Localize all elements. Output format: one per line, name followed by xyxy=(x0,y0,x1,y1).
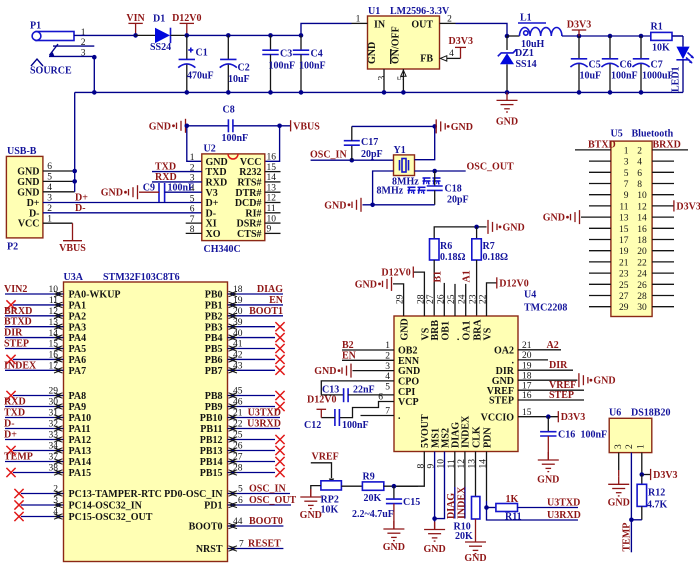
power port VBUS xyxy=(291,120,321,132)
svg-text:20K: 20K xyxy=(455,531,473,542)
U3A pin 33 D+ xyxy=(4,430,64,443)
svg-text:GND: GND xyxy=(608,497,630,508)
svg-text:R12: R12 xyxy=(648,488,665,499)
svg-text:D1: D1 xyxy=(153,14,165,25)
svg-text:GND: GND xyxy=(314,366,336,377)
svg-text:VIN2: VIN2 xyxy=(4,284,27,295)
svg-text:D12V0: D12V0 xyxy=(172,13,201,24)
U2 right pin stubs xyxy=(265,172,281,234)
svg-text:D12V0: D12V0 xyxy=(307,395,336,406)
U3A pin 7 RESET xyxy=(228,538,284,551)
ground symbol R6R7 xyxy=(488,220,525,234)
U3A pin 43 NC xyxy=(228,362,285,375)
connector P2 USB-B xyxy=(6,146,52,253)
wire GND to C8 to VBUS xyxy=(187,125,228,127)
ground symbol MS pins xyxy=(423,522,445,556)
capacitor C16 100nF xyxy=(540,417,607,460)
U4 pin 25 stub xyxy=(454,284,456,316)
svg-text:VBUS: VBUS xyxy=(59,243,86,254)
svg-text:BOOT0: BOOT0 xyxy=(249,516,283,527)
svg-text:R7: R7 xyxy=(483,241,495,252)
power port D3V3 xyxy=(567,20,591,37)
U6 pin 2 net TEMP xyxy=(622,453,634,553)
capacitor C1 470uF xyxy=(178,35,213,92)
svg-text:24: 24 xyxy=(637,270,647,280)
U3A pin 40 NC xyxy=(228,329,285,342)
U3A pin 19 EN xyxy=(228,295,284,308)
svg-text:C1: C1 xyxy=(196,48,208,59)
ground symbol C16 xyxy=(537,452,559,486)
svg-text:10uF: 10uF xyxy=(580,71,602,82)
svg-text:C3: C3 xyxy=(280,49,292,60)
wire D+ net xyxy=(43,193,202,204)
svg-text:EN: EN xyxy=(269,295,284,306)
wire RP2 left to gnd xyxy=(311,486,321,497)
svg-text:20: 20 xyxy=(637,247,647,257)
capacitor C6 100nF xyxy=(601,36,637,92)
svg-text:1: 1 xyxy=(385,341,390,351)
svg-text:20pF: 20pF xyxy=(447,194,469,205)
svg-text:100nF: 100nF xyxy=(299,61,326,72)
net U3TXD wire xyxy=(518,498,581,509)
svg-text:41: 41 xyxy=(233,340,243,350)
svg-text:33: 33 xyxy=(49,431,59,441)
U2 pin7 pin8 stubs xyxy=(186,223,202,233)
U4 pin 11 net DIAG xyxy=(446,452,457,520)
svg-text:BOOT0: BOOT0 xyxy=(189,522,223,533)
svg-text:1: 1 xyxy=(81,28,86,38)
svg-text:PA3: PA3 xyxy=(69,322,87,333)
wire P1 pin1 to VIN xyxy=(74,34,136,36)
U4 pin 18 GND xyxy=(518,371,616,387)
svg-text:U3A: U3A xyxy=(64,272,84,283)
svg-text:5: 5 xyxy=(190,194,195,204)
svg-text:PB6: PB6 xyxy=(205,355,223,366)
resistor R10 20K xyxy=(454,452,480,543)
ground rail xyxy=(75,91,683,93)
svg-text:PC15-OSC32_OUT: PC15-OSC32_OUT xyxy=(69,512,153,523)
svg-text:VS: VS xyxy=(483,327,494,340)
svg-text:D12V0: D12V0 xyxy=(381,268,410,279)
svg-text:20: 20 xyxy=(522,351,532,361)
U3A pin 5 OSC_IN xyxy=(228,483,291,496)
U3A pin 37 TEMP xyxy=(4,452,64,465)
svg-text:1K: 1K xyxy=(506,494,519,505)
IC U6 DS18B20 xyxy=(609,408,670,453)
U3A pin 11 NC xyxy=(6,296,63,309)
power port D3V3 U5 xyxy=(652,200,700,212)
svg-text:DIR: DIR xyxy=(549,360,568,371)
U3A pin 30 RXD xyxy=(4,397,64,410)
U4 pin 16 net STEP xyxy=(518,390,584,401)
wire crystal top gnd rail xyxy=(352,125,435,127)
svg-text:11: 11 xyxy=(49,296,58,306)
wire U1 OUT to node xyxy=(456,23,508,36)
svg-text:LED1: LED1 xyxy=(671,66,682,92)
svg-text:46: 46 xyxy=(233,398,243,408)
ground symbol main rail xyxy=(496,92,518,127)
svg-text:0.18Ω: 0.18Ω xyxy=(440,252,466,263)
svg-text:IN: IN xyxy=(374,19,386,30)
wire P1 pin3 xyxy=(49,56,94,92)
svg-text:13: 13 xyxy=(619,214,629,224)
svg-text:C4: C4 xyxy=(311,49,323,60)
regulator U1 LM2596-3.3V xyxy=(367,6,450,69)
svg-text:10uF: 10uF xyxy=(228,74,250,85)
svg-text:EN: EN xyxy=(342,350,357,361)
ground symbol crystal top xyxy=(436,119,473,133)
svg-text:18: 18 xyxy=(637,236,647,246)
svg-text:PA8: PA8 xyxy=(69,391,87,402)
svg-text:D-: D- xyxy=(4,419,15,430)
svg-text:11: 11 xyxy=(619,202,628,212)
svg-text:PA4: PA4 xyxy=(69,333,87,344)
wire Y1 left bottom to gnd xyxy=(373,171,394,205)
net OSC_OUT xyxy=(415,161,515,172)
capacitor C13 22nF xyxy=(321,382,394,402)
svg-text:28: 28 xyxy=(233,464,243,474)
svg-text:VCCIO: VCCIO xyxy=(481,412,515,423)
svg-text:CTS#: CTS# xyxy=(237,229,261,240)
svg-text:21: 21 xyxy=(522,341,532,351)
svg-text:30: 30 xyxy=(637,303,647,313)
svg-text:PA2: PA2 xyxy=(69,311,87,322)
U4 pin 10 MS2 wire xyxy=(432,452,444,530)
svg-text:RESET: RESET xyxy=(248,538,281,549)
U3A pin 29 NC xyxy=(6,387,63,400)
svg-text:16: 16 xyxy=(267,153,277,163)
U4 pin 14 PDN wire xyxy=(484,452,489,510)
svg-text:U3TXD: U3TXD xyxy=(248,408,281,419)
svg-text:6: 6 xyxy=(637,169,642,179)
svg-text:17: 17 xyxy=(49,362,59,372)
svg-text:10: 10 xyxy=(637,191,647,201)
net RXD xyxy=(152,172,202,183)
svg-text:PB11: PB11 xyxy=(200,424,222,435)
svg-text:6: 6 xyxy=(378,393,383,403)
svg-text:FB: FB xyxy=(420,53,433,64)
svg-text:32: 32 xyxy=(49,420,59,430)
svg-text:19: 19 xyxy=(522,361,532,371)
svg-text:37: 37 xyxy=(49,453,59,463)
svg-text:U5: U5 xyxy=(611,129,623,140)
svg-text:8MHz: 8MHz xyxy=(377,185,404,196)
svg-text:B1: B1 xyxy=(433,271,444,283)
svg-text:L1: L1 xyxy=(520,13,532,24)
svg-text:PA9: PA9 xyxy=(69,402,87,413)
svg-text:U4: U4 xyxy=(524,290,536,301)
U4 pin 26 net B1 xyxy=(433,271,445,316)
svg-text:STEP: STEP xyxy=(4,339,29,350)
svg-text:STEP: STEP xyxy=(549,390,574,401)
U3A pin 39 NC xyxy=(228,318,285,331)
svg-text:27: 27 xyxy=(233,453,243,463)
U3A pin 21 U3TXD xyxy=(228,408,282,421)
connector P1 barrel jack xyxy=(30,21,86,77)
svg-text:GND: GND xyxy=(503,222,525,233)
U4 pin 3 GND xyxy=(314,362,394,378)
svg-text:D-: D- xyxy=(29,208,40,219)
svg-text:SS14: SS14 xyxy=(516,59,537,70)
svg-text:C17: C17 xyxy=(361,137,378,148)
svg-text:BOOT1: BOOT1 xyxy=(249,306,283,317)
svg-text:5: 5 xyxy=(385,382,390,392)
svg-text:D12V0: D12V0 xyxy=(499,278,528,289)
U4 pin 24 net A1 xyxy=(462,270,473,316)
U3A pin 3 NC xyxy=(14,496,63,509)
U1 pin 4 FB to D3V3 xyxy=(440,36,473,61)
svg-text:GND: GND xyxy=(355,279,377,290)
ground symbol crystal bottom xyxy=(324,198,361,212)
resistor R7 0.18ohm xyxy=(472,227,508,316)
power port VBUS at P2 xyxy=(43,223,86,254)
svg-text:TEMP: TEMP xyxy=(622,523,633,552)
svg-text:23: 23 xyxy=(469,294,479,304)
wire VBUS node to U2 pin16 xyxy=(265,126,280,162)
svg-text:29: 29 xyxy=(49,387,59,397)
svg-text:D3V3: D3V3 xyxy=(567,20,591,31)
svg-text:Bluetooth: Bluetooth xyxy=(632,129,674,140)
ground symbol C15 xyxy=(383,521,405,553)
svg-text:GND: GND xyxy=(17,167,39,178)
P1 switch contact xyxy=(31,44,58,66)
U3A pin 27 NC xyxy=(228,453,285,466)
U4 pin 8 5VOUT wire xyxy=(394,452,424,487)
svg-text:GND: GND xyxy=(367,42,378,64)
svg-text:GND: GND xyxy=(451,122,473,133)
capacitor C12 100nF xyxy=(304,409,369,431)
U4 pin 2 net EN xyxy=(342,350,394,361)
svg-text:R6: R6 xyxy=(440,241,452,252)
svg-text:9: 9 xyxy=(624,191,629,201)
ground symbol RP2 xyxy=(300,489,322,521)
svg-text:C7: C7 xyxy=(651,60,663,71)
U6 pin 1 D3V3 xyxy=(640,453,678,481)
svg-text:3: 3 xyxy=(385,362,390,372)
svg-text:DIR: DIR xyxy=(4,328,23,339)
svg-text:5: 5 xyxy=(397,76,407,81)
svg-text:1: 1 xyxy=(637,444,647,449)
U3A pin 10 VIN2 xyxy=(4,284,64,297)
svg-text:15: 15 xyxy=(49,340,59,350)
U4 pin 29 GND xyxy=(355,277,404,316)
svg-text:OUT: OUT xyxy=(411,19,433,30)
svg-text:C2: C2 xyxy=(238,63,250,74)
svg-text:6: 6 xyxy=(190,205,195,215)
inductor L1 10uH xyxy=(507,13,562,50)
svg-text:12: 12 xyxy=(637,202,647,212)
U3A pin 2 NC xyxy=(14,485,63,498)
svg-text:GND: GND xyxy=(543,213,565,224)
U4 pin 6 VCP wire xyxy=(340,393,394,418)
svg-text:C12: C12 xyxy=(304,420,321,431)
wire USB GND pins xyxy=(43,92,77,191)
svg-text:21: 21 xyxy=(233,409,243,419)
svg-text:30: 30 xyxy=(49,398,59,408)
svg-text:PB7: PB7 xyxy=(205,366,223,377)
svg-text:R11: R11 xyxy=(505,512,522,523)
svg-text:C16: C16 xyxy=(558,430,575,441)
capacitor C5 10uF xyxy=(570,36,601,92)
U3A pin 12 BRXD xyxy=(4,306,64,319)
svg-text:OSC_IN: OSC_IN xyxy=(249,483,286,494)
svg-text:18: 18 xyxy=(522,371,532,381)
svg-text:3: 3 xyxy=(53,496,58,506)
svg-text:5: 5 xyxy=(238,485,243,495)
svg-text:PD0-OSC_IN: PD0-OSC_IN xyxy=(164,489,223,500)
svg-text:PB5: PB5 xyxy=(205,344,223,355)
svg-text:470uF: 470uF xyxy=(187,71,214,82)
svg-text:PB0: PB0 xyxy=(205,290,223,301)
svg-text:7: 7 xyxy=(624,180,629,190)
U4 pin 19 net DIR xyxy=(518,360,573,371)
svg-text:8: 8 xyxy=(637,180,642,190)
svg-text:D3V3: D3V3 xyxy=(653,470,677,481)
U4 pin 7 stub xyxy=(361,407,395,417)
svg-text:PA10: PA10 xyxy=(69,413,92,424)
svg-text:INDEX: INDEX xyxy=(461,415,472,448)
U1 pin 5 xyxy=(397,69,407,92)
svg-text:USB-B: USB-B xyxy=(7,146,37,157)
U4 pin 28 D12V0 xyxy=(381,267,424,317)
svg-text:TEMP: TEMP xyxy=(4,452,33,463)
svg-text:GND: GND xyxy=(464,553,486,564)
U5 right pin stubs xyxy=(652,150,688,307)
red arc U2 top xyxy=(228,154,238,159)
svg-text:OA1: OA1 xyxy=(462,321,473,341)
svg-text:GND: GND xyxy=(496,116,518,127)
ground symbol C9 xyxy=(101,185,159,199)
resistor R12 4.7K xyxy=(631,475,667,520)
U3A pin 4 NC xyxy=(14,508,63,521)
capacitor C2 10uF xyxy=(220,35,250,92)
wire P1 pin2 xyxy=(53,45,94,47)
svg-text:TXD: TXD xyxy=(4,408,25,419)
LED1 xyxy=(671,36,694,92)
svg-text:19: 19 xyxy=(619,247,629,257)
U3A pin 15 STEP xyxy=(4,339,64,352)
svg-text:4: 4 xyxy=(449,49,454,59)
svg-text:1: 1 xyxy=(190,153,195,163)
svg-text:39: 39 xyxy=(233,318,243,328)
svg-text:GND: GND xyxy=(423,544,445,555)
svg-text:22: 22 xyxy=(637,258,647,268)
U3A pin 13 BTXD xyxy=(4,317,64,330)
svg-text:GND: GND xyxy=(300,510,322,521)
svg-text:31: 31 xyxy=(49,409,59,419)
svg-text:19: 19 xyxy=(233,296,243,306)
svg-text:D+: D+ xyxy=(4,430,17,441)
crystal value CJK text xyxy=(408,178,441,194)
svg-text:PB3: PB3 xyxy=(205,322,223,333)
svg-text:RXD: RXD xyxy=(4,397,26,408)
svg-text:0.18Ω: 0.18Ω xyxy=(483,252,509,263)
svg-text:PB8: PB8 xyxy=(205,391,223,402)
U3A pin 14 DIR xyxy=(4,328,64,341)
svg-text:GND: GND xyxy=(537,475,559,486)
svg-text:20: 20 xyxy=(233,307,243,317)
svg-text:U3RXD: U3RXD xyxy=(547,510,581,521)
svg-text:100nF: 100nF xyxy=(222,133,249,144)
svg-text:PD1: PD1 xyxy=(204,501,222,512)
svg-text:40: 40 xyxy=(233,329,243,339)
svg-text:GND: GND xyxy=(17,177,39,188)
svg-text:16: 16 xyxy=(49,351,59,361)
svg-text:1: 1 xyxy=(356,14,361,24)
net U3RXD wire xyxy=(487,508,581,522)
svg-text:100nF: 100nF xyxy=(269,61,296,72)
U3A pin 25 NC xyxy=(228,431,285,444)
svg-text:26: 26 xyxy=(233,442,243,452)
svg-text:STEP: STEP xyxy=(489,396,514,407)
U3A pin 32 D- xyxy=(4,419,64,432)
svg-text:2: 2 xyxy=(625,444,635,449)
net VREF at RP2 xyxy=(311,451,339,484)
svg-text:DIAG: DIAG xyxy=(257,284,283,295)
svg-text:OSC_IN: OSC_IN xyxy=(310,149,347,160)
svg-text:34: 34 xyxy=(49,442,59,452)
U3A pin 42 NC xyxy=(228,351,285,364)
U4 pin 22 D12V0 xyxy=(487,277,529,316)
resistor R6 0.18ohm xyxy=(430,239,466,316)
svg-text:2: 2 xyxy=(53,485,58,495)
capacitor C4 100nF xyxy=(293,35,326,92)
U1 pin 3 xyxy=(378,69,388,92)
U3A pin 22 U3RXD xyxy=(228,419,282,432)
svg-text:3: 3 xyxy=(624,158,629,168)
svg-text:TMC2208: TMC2208 xyxy=(524,303,567,314)
svg-text:100nF: 100nF xyxy=(581,430,608,441)
svg-text:2: 2 xyxy=(637,146,642,156)
svg-text:2: 2 xyxy=(385,352,390,362)
svg-text:VIN: VIN xyxy=(126,13,145,24)
svg-text:D-: D- xyxy=(75,203,86,214)
svg-text:GND: GND xyxy=(593,376,615,387)
svg-text:CH340C: CH340C xyxy=(204,244,241,255)
svg-text:5: 5 xyxy=(624,169,629,179)
svg-text:100nF: 100nF xyxy=(168,183,195,194)
svg-text:GND: GND xyxy=(101,188,123,199)
svg-text:C5: C5 xyxy=(589,60,601,71)
U3A pin 45 NC xyxy=(228,387,285,400)
svg-text:PA11: PA11 xyxy=(69,424,91,435)
svg-text:PB14: PB14 xyxy=(200,457,223,468)
svg-text:45: 45 xyxy=(233,387,243,397)
U4 pin 4 CPO wire xyxy=(321,372,394,395)
svg-text:RXD: RXD xyxy=(155,172,177,183)
svg-text:LM2596-3.3V: LM2596-3.3V xyxy=(390,6,450,17)
svg-text:PA1: PA1 xyxy=(69,301,87,312)
wire 12V rail to C4 xyxy=(187,34,301,36)
svg-text:GND: GND xyxy=(149,121,171,132)
svg-text:BTXD: BTXD xyxy=(4,317,32,328)
crystal Y1 8MHz xyxy=(377,145,420,197)
svg-text:U3RXD: U3RXD xyxy=(247,419,281,430)
svg-text:6: 6 xyxy=(238,496,243,506)
svg-text:7: 7 xyxy=(385,407,390,417)
svg-text:20pF: 20pF xyxy=(361,149,383,160)
svg-text:PA15: PA15 xyxy=(69,468,92,479)
ground symbol U5 xyxy=(543,210,611,224)
wire R6 R7 top gnd xyxy=(434,227,486,239)
svg-text:43: 43 xyxy=(233,362,243,372)
svg-text:GND: GND xyxy=(400,318,411,340)
svg-text:3: 3 xyxy=(614,444,624,449)
svg-text:U2: U2 xyxy=(204,144,216,155)
wire crystal bottom gnd xyxy=(363,204,435,206)
svg-text:PB1: PB1 xyxy=(205,301,223,312)
capacitor C7 1000uF xyxy=(632,36,673,92)
